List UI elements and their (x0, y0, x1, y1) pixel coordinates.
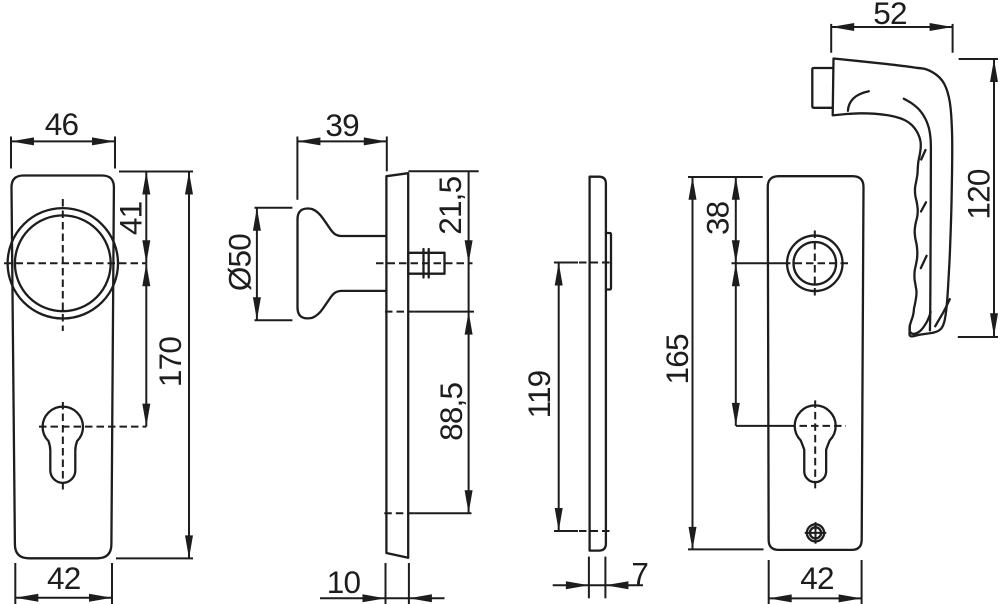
screw axis centerline (view3) (554, 530, 578, 532)
dimension 21.5 line (468, 171, 470, 513)
spindle axis centerline (376, 262, 473, 264)
dimension 7 extension lines (588, 557, 590, 599)
handle grip tick 3 (921, 256, 927, 268)
keyhole E2 euro profile (795, 405, 836, 482)
dimension 42 extension lines (view1) (14, 563, 16, 604)
svg-text:10: 10 (327, 564, 361, 600)
dimension 42 extension lines (view4) (768, 560, 770, 604)
extension line bottom (120) (958, 336, 998, 338)
spindle S1 (408, 253, 444, 274)
handle hole H1 horizontal centerline (732, 262, 784, 264)
knob K1 inner circle (15, 215, 111, 311)
svg-text:46: 46 (45, 106, 79, 142)
hidden line 88.5 reference (384, 512, 414, 514)
handle tip diagonal (935, 299, 950, 326)
dimension 10 line (320, 597, 445, 599)
keyhole E1 euro profile (43, 407, 83, 483)
svg-text:21,5: 21,5 (432, 176, 468, 234)
dimension 7 line (553, 584, 643, 586)
handle grip tick 1 (921, 150, 925, 160)
plate P2 side outline (386, 173, 408, 558)
dimension 10 extension lines (385, 563, 387, 604)
plate P1 outline (11, 176, 113, 559)
keyhole E2 vertical centerline (814, 400, 816, 489)
svg-text:41: 41 (113, 202, 149, 235)
handle grip tick 2 (921, 202, 926, 211)
keyhole E1 vertical centerline (62, 402, 64, 490)
handle hole H1 outer circle (787, 236, 843, 292)
extension line bottom (170) (116, 557, 193, 559)
dimension 38 line (735, 177, 737, 263)
hidden line 21.5 reference (385, 311, 415, 313)
keyhole E2 horizontal centerline (736, 425, 788, 427)
svg-text:165: 165 (659, 334, 695, 384)
handle tip inner U curve (910, 312, 931, 334)
spindle S1 square marks (422, 249, 424, 278)
keyhole E1 horizontal centerline (39, 426, 146, 428)
dimension 39 line (297, 140, 386, 142)
dimension D50 line (256, 208, 258, 321)
extension line top (165/38) (688, 176, 763, 178)
dimension 165 line (692, 177, 694, 550)
handle axis centerline (view3) (554, 262, 578, 264)
handle thumb arc (848, 91, 869, 111)
dimension 42 line (view1 bottom) (15, 597, 112, 599)
svg-text:88,5: 88,5 (433, 382, 469, 440)
svg-text:120: 120 (961, 169, 997, 219)
dimension 52 line (831, 26, 952, 28)
dimension 52 extension lines (830, 24, 832, 53)
dimension 119 line (558, 263, 560, 532)
svg-text:38: 38 (700, 201, 736, 235)
handle boss B1 (812, 68, 832, 108)
plate P4 outline (768, 176, 864, 550)
dimension 120 line (993, 59, 995, 336)
plate P3 hub tab (606, 233, 611, 290)
knob K2 side profile (298, 209, 387, 319)
dimension 39 extension lines (296, 137, 298, 200)
svg-text:52: 52 (873, 0, 906, 31)
svg-text:170: 170 (152, 337, 188, 387)
svg-text:39: 39 (325, 107, 359, 143)
dimension 41 line (145, 172, 147, 264)
svg-text:Ø50: Ø50 (222, 234, 258, 291)
knob K1 outer circle (8, 208, 118, 318)
svg-text:119: 119 (521, 370, 557, 418)
extension line bottom (165) (688, 548, 764, 550)
extension line top (120) (959, 58, 998, 60)
svg-text:42: 42 (47, 560, 80, 596)
chain dimension hole axis to keyhole axis (view4) (735, 263, 737, 426)
dimension 46 extension lines (10, 137, 12, 169)
knob K1 horizontal centerline (4, 262, 146, 264)
svg-text:42: 42 (800, 560, 833, 596)
chain dimension knob axis to keyhole axis line (145, 263, 147, 426)
handle hole H1 vertical centerline (814, 231, 816, 297)
handle hole H1 inner circle (794, 242, 837, 285)
handle L1 outline (833, 59, 953, 337)
svg-text:7: 7 (631, 556, 648, 592)
handle inner contour line (904, 99, 931, 331)
screw SC1 symbol (807, 524, 824, 541)
dimension D50 extension lines (255, 207, 293, 209)
dimension 42 line (view4) (769, 597, 862, 599)
knob K1 vertical centerline (62, 199, 64, 331)
plate P3 strip outline (590, 177, 606, 551)
extension line top (41/170) (119, 171, 193, 173)
dimension 170 line (188, 172, 190, 559)
dimension 46 line (11, 140, 115, 142)
extension line plate top (21.5) (408, 170, 478, 172)
